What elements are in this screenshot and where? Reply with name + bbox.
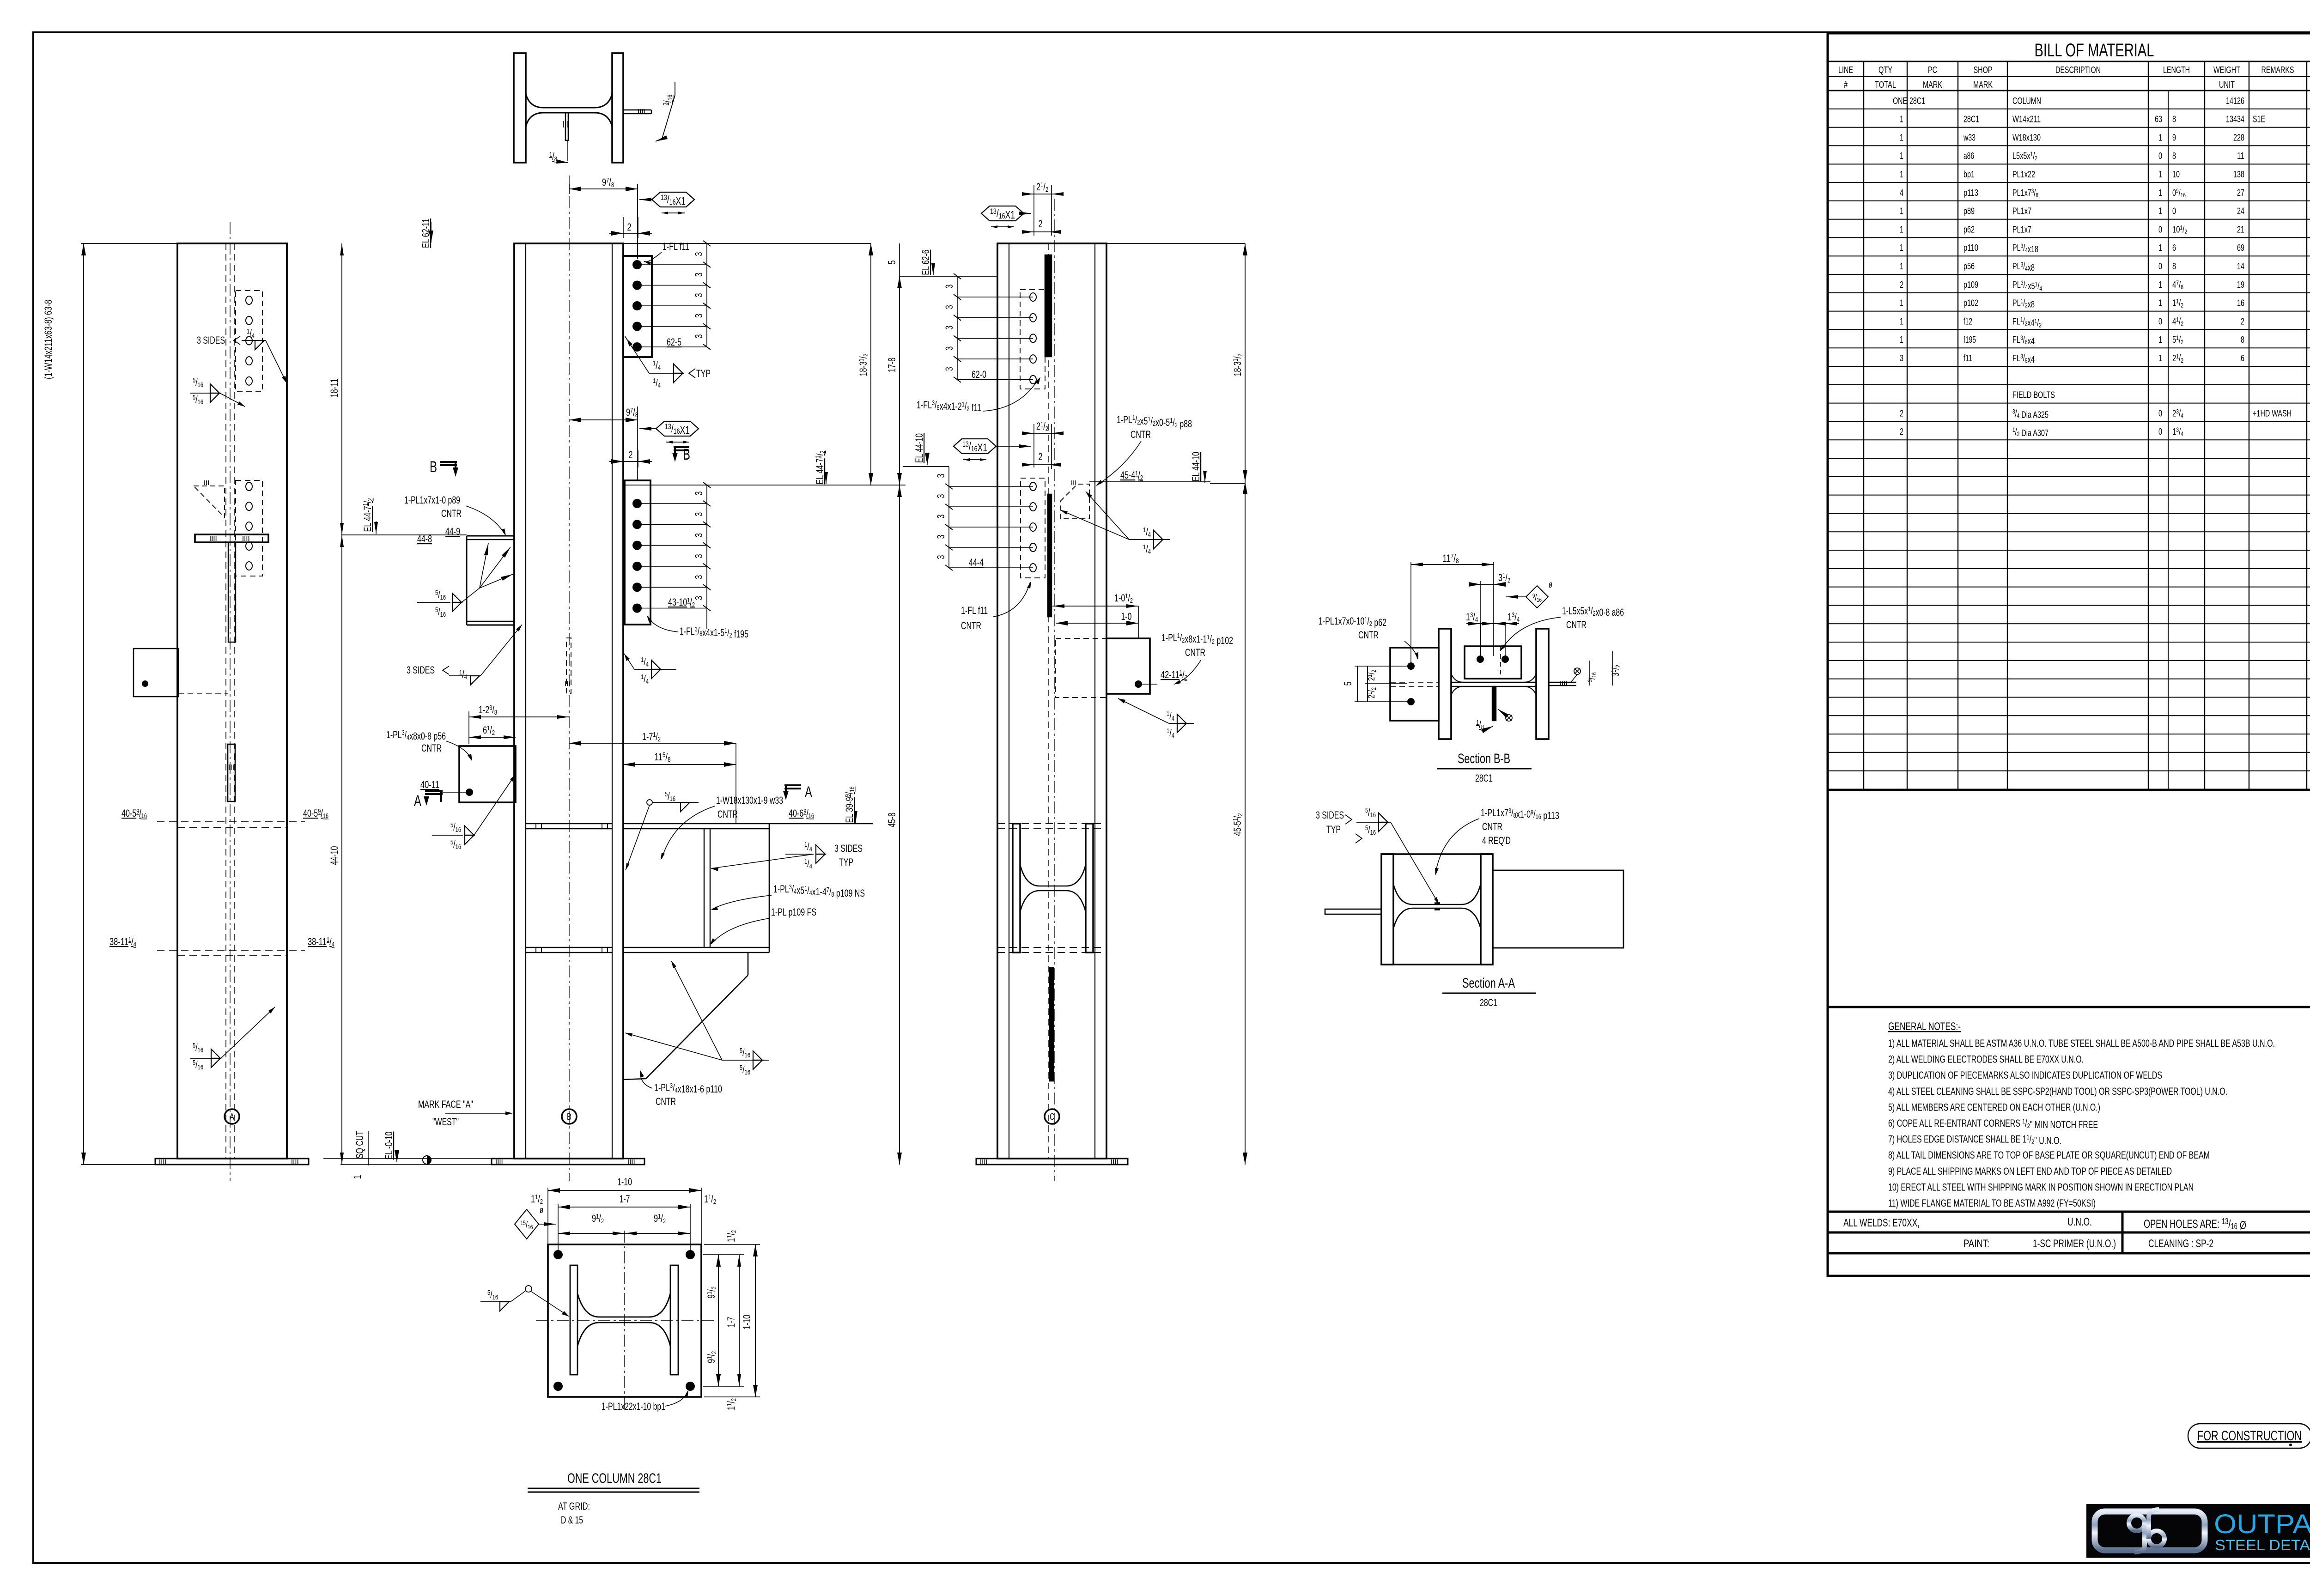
sectionBB p62 hidden line [1390,682,1439,683]
diamond 15/16 [515,1209,539,1239]
svg-text:0: 0 [2172,206,2176,217]
svg-text:4) ALL STEEL CLEANING SHALL BE: 4) ALL STEEL CLEANING SHALL BE SSPC-SP2(… [1888,1086,2227,1097]
svg-text:a86: a86 [1963,151,1974,161]
svg-text:1: 1 [2158,206,2162,217]
sectionBB weld all around symbols [1574,668,1581,674]
beam w33 through column web lines [526,823,612,824]
BOM table frame [1828,33,2310,790]
view1 column outline [177,243,287,1159]
baseplate detail plate [548,1244,701,1397]
svg-text:3: 3 [943,346,955,351]
svg-text:8: 8 [2241,335,2244,345]
view1 p110 plate left [134,649,178,697]
svg-text:1: 1 [2158,280,2162,290]
view2 column outline [514,243,623,1159]
view3 group2 holes [1030,482,1036,491]
view3 hole group2 dashed [1021,478,1045,578]
svg-text:3: 3 [693,334,705,339]
view1 beam dashes at 38-11 [157,950,305,951]
svg-text:1: 1 [1900,261,1903,272]
svg-text:3: 3 [693,596,705,600]
svg-text:TYP: TYP [1326,824,1341,835]
svg-text:5: 5 [1342,682,1354,686]
svg-text:63: 63 [2155,115,2162,125]
svg-text:3: 3 [693,533,705,537]
svg-text:19: 19 [2237,280,2244,290]
view3 column outline [997,243,1106,1159]
svg-text:REMARKS: REMARKS [2261,65,2294,75]
svg-text:AT GRID:: AT GRID: [558,1500,590,1512]
svg-text:0: 0 [2158,151,2162,161]
svg-text:PL1x73/8: PL1x73/8 [2012,187,2038,199]
svg-text:FL3/8x4: FL3/8x4 [2012,352,2035,365]
base plate B [492,1159,644,1165]
svg-text:f11: f11 [1963,353,1972,364]
svg-text:GENERAL NOTES:-: GENERAL NOTES:- [1888,1020,1961,1033]
svg-text:CNTR: CNTR [717,808,738,820]
svg-text:228: 228 [2233,133,2244,143]
weld flag p110 [722,1060,769,1061]
svg-text:1-10: 1-10 [741,1315,753,1329]
baseplate bolts [553,1250,563,1259]
svg-text:1: 1 [2158,133,2162,143]
base dot [423,1156,431,1164]
ref line EL 44-10 right [1210,483,1245,484]
view3 f11 plate top hatched [1045,255,1052,357]
svg-text:MARK: MARK [1923,80,1942,90]
svg-text:D & 15: D & 15 [561,1514,583,1526]
fan arrows to stub [480,543,488,588]
svg-text:1: 1 [1900,243,1903,253]
svg-text:138: 138 [2233,170,2244,180]
svg-text:FL3/8x4: FL3/8x4 [2012,334,2035,346]
svg-text:WEIGHT: WEIGHT [2213,65,2240,75]
svg-text:PL1x22: PL1x22 [2012,170,2035,180]
svg-text:3: 3 [935,555,947,559]
svg-text:3: 3 [693,575,705,579]
svg-text:7) HOLES EDGE DISTANCE SHALL B: 7) HOLES EDGE DISTANCE SHALL BE 11/2" U.… [1888,1134,2061,1147]
svg-text:1-PL1x7x1-0 p89: 1-PL1x7x1-0 p89 [404,494,460,506]
svg-text:FIELD BOLTS: FIELD BOLTS [2012,390,2055,401]
svg-text:bp1: bp1 [1963,170,1975,180]
for construction stamp [2188,1424,2310,1448]
baseplate centerlines [624,1231,625,1411]
dim 44-10 [341,535,342,1165]
svg-text:EL 44-10: EL 44-10 [1190,452,1202,481]
view2 centerline [569,176,570,1181]
svg-text:1-PL p109 FS: 1-PL p109 FS [771,906,816,918]
ext line at 1158 [342,534,467,535]
view3 hidden line pair [1048,243,1049,1159]
svg-text:0: 0 [2158,316,2162,327]
svg-text:3: 3 [693,252,705,256]
top section view W14 flange right [612,53,623,163]
svg-text:BILL OF MATERIAL: BILL OF MATERIAL [2035,40,2154,61]
sectionAA top/bottom lines [1381,853,1493,855]
svg-text:44-9: 44-9 [445,526,460,537]
svg-text:TYP: TYP [839,856,853,868]
beam w33 top flange [623,823,873,825]
view1 centerline [230,222,231,1181]
svg-text:69: 69 [2237,243,2244,253]
svg-text:f195: f195 [1963,335,1976,345]
svg-text:(1-W14x211x63-8) 63-8: (1-W14x211x63-8) 63-8 [43,300,54,379]
top section view web [526,94,612,108]
svg-text:14126: 14126 [2226,96,2244,106]
svg-text:2: 2 [627,221,632,233]
view2 weld flag TYP [625,336,649,373]
svg-text:6) COPE ALL RE-ENTRANT CORNERS: 6) COPE ALL RE-ENTRANT CORNERS 1/2" MIN … [1888,1117,2098,1130]
svg-text:1-PL1x7x0-101/2 p62: 1-PL1x7x0-101/2 p62 [1319,615,1386,628]
svg-text:Section B-B: Section B-B [1458,751,1510,766]
svg-text:EL 44-71/2: EL 44-71/2 [362,498,374,532]
svg-text:3: 3 [943,305,955,309]
view3 beam section dashes bottom [997,947,1106,948]
svg-text:LINE: LINE [1838,65,1853,75]
logo emblem [2095,1511,2205,1550]
sectionBB flange right [1536,629,1549,739]
section B marker right [674,447,689,458]
svg-text:1: 1 [2158,353,2162,364]
svg-text:2) ALL WELDING ELECTRODES SHAL: 2) ALL WELDING ELECTRODES SHALL BE E70XX… [1888,1054,2084,1065]
sectionAA plate left [1325,909,1381,914]
svg-text:3 SIDES: 3 SIDES [834,843,863,854]
svg-text:1-10: 1-10 [617,1176,632,1188]
svg-text:CNTR: CNTR [441,508,462,519]
svg-text:17-8: 17-8 [886,358,898,372]
dim 18-3 1/2 [870,243,871,485]
svg-text:1: 1 [1900,133,1903,143]
view1 hidden web lines [225,243,226,1159]
view3 hex flag top [981,206,1024,221]
view2 group2 row lines [637,503,707,504]
svg-text:8: 8 [2172,115,2176,125]
view1 hole group 1 dashed [236,291,262,392]
dim 45-5 1/2 right [1245,482,1246,1165]
svg-text:6: 6 [2241,353,2244,364]
grid bubble B [562,1109,577,1124]
svg-text:2: 2 [1900,280,1903,290]
all welds row [1828,1212,2310,1232]
svg-text:1-PL3/4x18x1-6 p110: 1-PL3/4x18x1-6 p110 [654,1082,722,1095]
p88 dashed plate [1060,484,1089,519]
svg-text:COLUMN: COLUMN [2012,96,2041,106]
svg-text:13434: 13434 [2226,115,2244,125]
svg-text:5) ALL MEMBERS ARE CENTERED ON: 5) ALL MEMBERS ARE CENTERED ON EACH OTHE… [1888,1101,2100,1113]
weld 5/16 at beam top [647,800,652,805]
svg-text:1-SC PRIMER (U.N.O.): 1-SC PRIMER (U.N.O.) [2033,1238,2116,1250]
p109 plates in beam [704,829,705,947]
sectionBB left dims 2.5 2.5 5 [1357,666,1358,702]
svg-text:3: 3 [693,314,705,318]
svg-text:W18x130: W18x130 [2012,133,2041,143]
svg-text:3 SIDES: 3 SIDES [407,664,435,676]
svg-text:18-11: 18-11 [328,379,340,398]
svg-text:Section A-A: Section A-A [1462,976,1515,991]
beam w33 bottom flange [623,947,769,948]
sectionAA beam stub right [1493,870,1623,948]
BOM header lines [1828,61,2310,62]
svg-text:L5x5x1/2: L5x5x1/2 [2012,150,2037,162]
view3 W18 section [1013,824,1020,953]
view2 group2 weld flag [634,669,676,670]
view3 group1 holes [1030,293,1036,301]
sectionBB a86 angle [1465,646,1521,679]
section A marker right [784,785,801,796]
svg-text:W14x211: W14x211 [2012,115,2041,125]
svg-text:6: 6 [2172,243,2176,253]
svg-text:ALL WELDS: E70XX,: ALL WELDS: E70XX, [1843,1217,1920,1229]
svg-text:38-111/4: 38-111/4 [109,936,136,948]
svg-text:FL1/2x41/2: FL1/2x41/2 [2012,316,2042,328]
weld 1/4 1/4 3 sides right [785,854,814,855]
view2 flange inner lines [525,243,526,1159]
svg-text:1-7: 1-7 [620,1193,630,1205]
svg-text:CNTR: CNTR [421,742,442,754]
sectionAA flange right [1481,854,1493,965]
weld flag p88 [1129,539,1170,540]
top view f11 plate below web [565,113,568,140]
svg-text:1: 1 [1900,225,1903,235]
view1 hole group2 holes [246,482,252,491]
svg-text:21: 21 [2237,225,2244,235]
svg-text:0: 0 [2158,225,2162,235]
svg-text:B: B [683,446,690,463]
svg-text:3: 3 [935,494,947,498]
svg-text:3: 3 [935,474,947,478]
view2 f11 plate group1 [623,256,652,357]
svg-text:3 SIDES: 3 SIDES [1316,809,1344,821]
svg-text:28C1: 28C1 [1475,772,1493,784]
svg-text:9) PLACE ALL SHIPPING MARKS ON: 9) PLACE ALL SHIPPING MARKS ON LEFT END … [1888,1165,2172,1177]
view3 lower f11 hatched bar [1050,968,1053,1081]
svg-text:3: 3 [935,535,947,539]
ref line 45-4 1/2 [1089,481,1210,482]
svg-text:1-W18x130x1-9 w33: 1-W18x130x1-9 w33 [716,795,783,806]
svg-text:8: 8 [2172,151,2176,161]
svg-text:B: B [430,458,437,476]
svg-text:SQ CUT: SQ CUT [354,1131,365,1159]
svg-text:28C1: 28C1 [1963,115,1979,125]
hidden slot on centerline view2 [566,638,571,693]
svg-text:A: A [230,1112,234,1122]
view2 group1 bolts [632,260,642,269]
svg-text:A: A [414,792,421,810]
svg-text:PL1x7: PL1x7 [2012,206,2031,217]
svg-text:8: 8 [2172,261,2176,272]
p56 plate [459,746,516,802]
svg-text:1-FL f11: 1-FL f11 [961,605,988,616]
svg-text:0: 0 [2158,261,2162,272]
svg-text:28C1: 28C1 [1480,997,1497,1008]
p102 plate [1106,638,1150,694]
svg-text:EL -0-10: EL -0-10 [383,1132,395,1160]
view3 beam section dashes top [997,823,1106,824]
svg-text:p113: p113 [1963,188,1978,198]
BOM length subdivider [2168,91,2169,790]
BOM data rows [1828,109,2310,109]
svg-text:3: 3 [693,554,705,558]
top view right plate p89 edge [623,109,651,111]
view1 f12 plate bar [228,744,235,801]
svg-text:PL1x7: PL1x7 [2012,225,2031,235]
view3 centerline [1054,199,1055,1181]
svg-text:2: 2 [1900,408,1903,419]
svg-text:1: 1 [2158,298,2162,309]
view3 f11 plate mid hatched [1048,494,1052,617]
svg-text:p110: p110 [1963,243,1978,253]
svg-text:CNTR: CNTR [961,620,981,631]
base plate C [976,1159,1128,1165]
svg-text:STEEL DETAILING: STEEL DETAILING [2215,1537,2310,1554]
svg-text:1: 1 [1900,298,1903,309]
base plate A [155,1159,309,1165]
dim 45-8 [899,485,900,1165]
svg-text:44-10: 44-10 [328,846,340,865]
svg-text:1: 1 [2158,335,2162,345]
svg-text:CNTR: CNTR [1131,429,1151,440]
view2 group1 dim ladder [706,243,707,347]
svg-text:LENGTH: LENGTH [2163,65,2190,75]
view3 group2 dim ladder [948,467,949,568]
svg-text:3: 3 [1900,353,1903,364]
svg-text:14: 14 [2237,261,2244,272]
svg-text:CNTR: CNTR [656,1096,676,1107]
svg-text:4 REQ'D: 4 REQ'D [1482,835,1511,846]
svg-text:1: 1 [1900,151,1903,161]
svg-text:UNIT: UNIT [2219,80,2235,90]
view3 group1 rows [957,297,1033,297]
svg-text:3: 3 [935,515,947,519]
svg-text:SHOP: SHOP [1974,65,1993,75]
view1 overall dim 63-8 [83,243,84,1165]
svg-text:18-31/2: 18-31/2 [1232,354,1244,376]
svg-text:0: 0 [2158,408,2162,419]
ref line EL 62-6 [900,276,997,277]
base ext lines [323,1158,492,1159]
svg-text:EL 62-6: EL 62-6 [920,250,931,275]
svg-text:45-51/2: 45-51/2 [1232,813,1244,836]
svg-text:16: 16 [2237,298,2244,309]
svg-text:5: 5 [886,261,898,265]
svg-text:p56: p56 [1963,261,1975,272]
svg-text:CNTR: CNTR [1482,821,1502,832]
svg-text:1-7: 1-7 [725,1317,737,1328]
svg-text:3: 3 [693,273,705,277]
view3 hex flag mid [954,439,996,454]
svg-text:62-0: 62-0 [972,369,986,380]
svg-text:ONE COLUMN 28C1: ONE COLUMN 28C1 [567,1471,662,1486]
svg-text:TYP: TYP [696,368,711,379]
paint row [1828,1232,2310,1253]
svg-text:QTY: QTY [1878,65,1892,75]
svg-text:11: 11 [2237,151,2244,161]
view1 hole group1 holes [246,296,252,304]
svg-text:1: 1 [2158,170,2162,180]
svg-text:DESCRIPTION: DESCRIPTION [2055,65,2101,75]
svg-text:U.N.O.: U.N.O. [2067,1216,2092,1228]
beam stub left of view2 [467,535,514,537]
svg-text:PAINT:: PAINT: [1963,1238,1989,1250]
view1 clip triangle dashed [194,486,225,517]
svg-text:S1E: S1E [2253,115,2265,125]
sectionBB right plate edge [1549,682,1576,683]
svg-text:45-41/2: 45-41/2 [1120,469,1143,482]
hidden plate left of p102 [1056,638,1106,698]
svg-text:9: 9 [2172,133,2176,143]
bottom strip box [1828,1253,2310,1276]
svg-text:PL3/4x8: PL3/4x8 [2012,261,2035,273]
sectionBB flange left [1439,629,1451,739]
view3 top line ext right [1106,243,1245,244]
view2 top line extension right [623,243,871,244]
svg-text:+1HD WASH: +1HD WASH [2253,408,2292,419]
svg-text:"WEST": "WEST" [432,1116,459,1128]
svg-text:3: 3 [693,293,705,297]
svg-text:CNTR: CNTR [1185,647,1205,658]
svg-text:3: 3 [693,512,705,516]
svg-text:1-PL1x22x1-10 bp1: 1-PL1x22x1-10 bp1 [602,1401,665,1412]
view1 beam dashes at 40-5 [157,821,305,822]
svg-text:0: 0 [2158,427,2162,437]
dim 18-11 [341,243,342,535]
svg-text:1-PL3/4x8x0-8 p56: 1-PL3/4x8x0-8 p56 [386,729,446,742]
svg-text:28C1: 28C1 [1909,96,1925,106]
grid bubble C [1045,1109,1059,1124]
empty box below table [1828,790,2310,1007]
svg-text:3 SIDES: 3 SIDES [197,334,225,346]
view1 grid bubble A [225,1109,239,1124]
svg-text:38-111/4: 38-111/4 [308,936,334,948]
svg-text:CLEANING : SP-2: CLEANING : SP-2 [2148,1238,2213,1250]
svg-text:1-0: 1-0 [1121,611,1132,622]
svg-text:ONE: ONE [1893,96,1907,106]
svg-text:43-101/2: 43-101/2 [668,596,695,609]
baseplate W14 section [570,1265,577,1375]
svg-text:1: 1 [1900,316,1903,327]
svg-text:ø: ø [540,1205,543,1215]
svg-text:EL 44-10: EL 44-10 [913,433,925,463]
svg-text:1: 1 [2158,243,2162,253]
svg-text:p89: p89 [1963,206,1975,217]
top section view W14 flange left [514,53,526,163]
svg-text:TOTAL: TOTAL [1875,80,1896,90]
svg-text:EL 44-71/2: EL 44-71/2 [814,451,827,485]
svg-text:1: 1 [1900,335,1903,345]
svg-text:PL1/2x8: PL1/2x8 [2012,297,2035,310]
svg-text:1: 1 [1900,115,1903,125]
svg-text:1: 1 [2158,188,2162,198]
svg-text:#: # [1844,80,1848,90]
svg-text:CNTR: CNTR [1358,629,1379,641]
sectionBB web [1451,682,1536,683]
svg-text:A: A [805,783,812,801]
beam w33 end [769,824,770,953]
svg-text:24: 24 [2237,206,2244,217]
svg-text:1-FL f11: 1-FL f11 [663,241,689,252]
sectionBB p62 plate [1390,648,1439,721]
svg-text:1: 1 [352,1175,363,1179]
view3 group2 rows [949,486,1033,487]
svg-text:w33: w33 [1963,133,1976,143]
view2 group2 dim ladder [706,485,707,629]
ref line EL 44-10 left [903,466,949,467]
hole flag 13/16X1 top [652,192,694,207]
svg-text:44-4: 44-4 [969,557,984,568]
svg-text:PC: PC [1928,65,1937,75]
gusset plate below beam [748,953,749,975]
view1 seat plate [195,534,268,542]
